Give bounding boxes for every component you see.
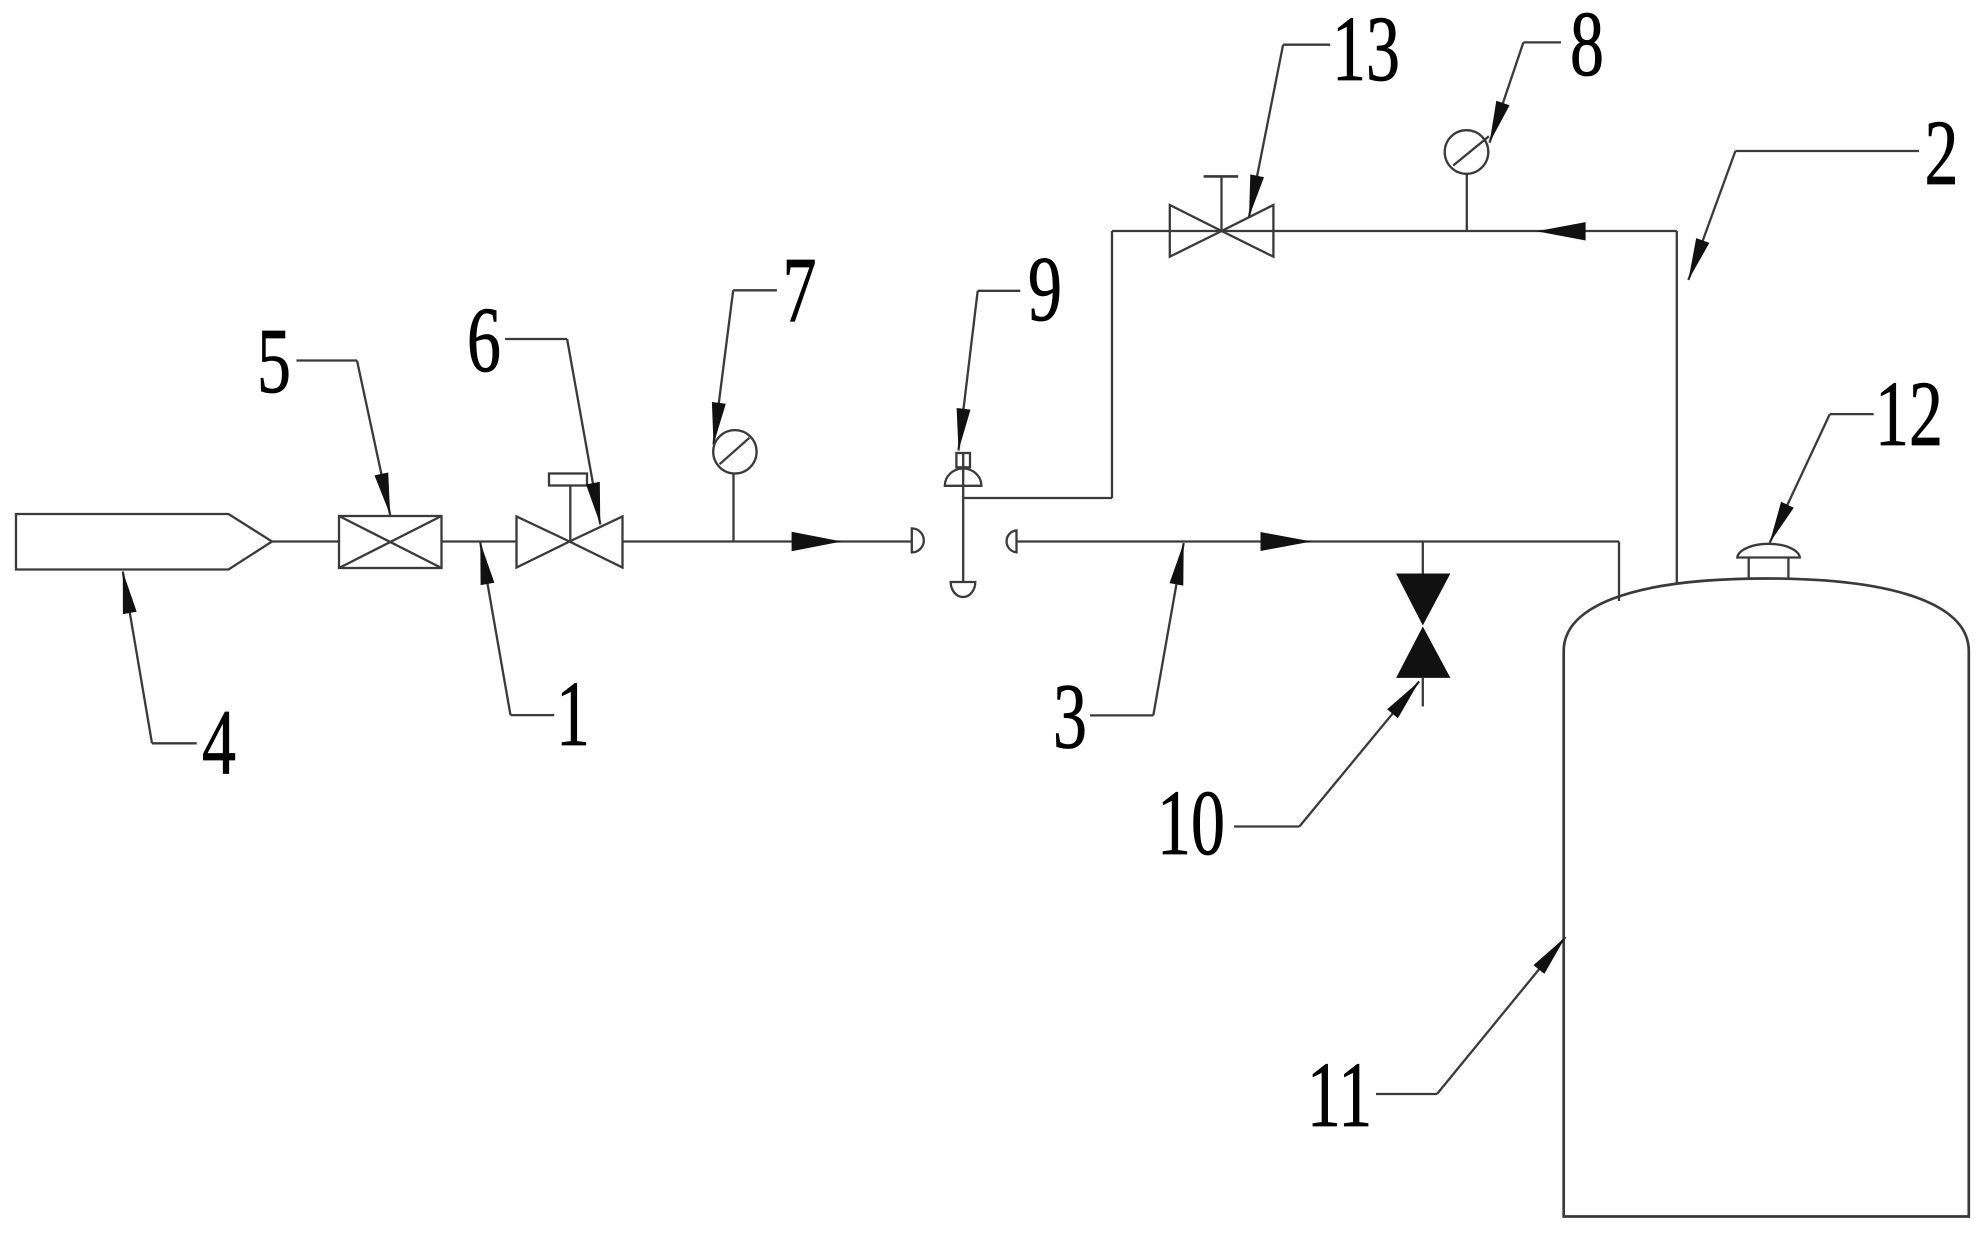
pressure gauge 7 xyxy=(713,430,756,541)
leader line for label 3 xyxy=(1153,543,1183,715)
svg-text:1: 1 xyxy=(556,662,590,766)
leader line for label 7 xyxy=(714,290,734,444)
leader arrowhead 13 xyxy=(1249,174,1264,217)
leader line for label 9 xyxy=(959,291,978,451)
pressure gauge 8 xyxy=(1445,130,1489,231)
wire: branch from igniter 9 to riser xyxy=(963,497,1112,499)
svg-text:3: 3 xyxy=(1053,664,1087,768)
filter element 5 (box with X) xyxy=(339,516,442,568)
svg-text:8: 8 xyxy=(1570,0,1604,96)
flow arrow on pipe 3 xyxy=(1261,532,1312,551)
valve 13 handle bar xyxy=(1204,175,1239,178)
flow arrow on top pipe (pointing left) xyxy=(1537,222,1586,240)
wire: pipe 3 from coupling to tank xyxy=(1017,540,1620,542)
leader arrowhead 9 xyxy=(957,408,971,451)
wire: riser to top line 2 xyxy=(1111,231,1113,498)
flow arrow on left pipe xyxy=(792,532,842,552)
coupling half (right C) of quick connector 9 xyxy=(1007,530,1017,552)
wire: tube 4 to filter 5 xyxy=(272,540,340,542)
leader arrowhead 7 xyxy=(712,402,726,445)
igniter 9: dome xyxy=(945,468,982,485)
leader line for label 5 xyxy=(357,361,390,516)
igniter 9: top square xyxy=(956,453,970,467)
coupling half (left D) of quick connector 9 xyxy=(912,528,924,552)
valve 13 (globe valve with T handle) xyxy=(1170,176,1274,256)
wire: right riser of loop 2 down to tank xyxy=(1676,231,1678,584)
tank 11 xyxy=(1564,579,1969,1217)
leader line for label 1 xyxy=(480,543,510,716)
valve 6 (globe valve with handle) xyxy=(517,474,623,568)
leader line for label 6 xyxy=(567,339,600,525)
leader arrowhead 4 xyxy=(123,572,137,615)
leader line for label 12 xyxy=(1770,414,1830,543)
filler cap 12 dome xyxy=(1737,544,1800,558)
leader arrowhead 11 xyxy=(1534,937,1566,974)
leader arrowhead 8 xyxy=(1490,101,1510,143)
igniter 9: bottom cup xyxy=(951,582,976,597)
svg-text:12: 12 xyxy=(1875,362,1943,466)
leader arrowhead 12 xyxy=(1770,502,1794,543)
leader arrowhead 3 xyxy=(1170,543,1184,586)
leader arrowhead 10 xyxy=(1387,681,1419,718)
svg-text:13: 13 xyxy=(1332,0,1400,101)
valve 10 stem bottom xyxy=(1422,678,1424,707)
wire: valve 6 past gauge 7 to coupling 9 xyxy=(623,540,912,542)
svg-text:6: 6 xyxy=(467,288,501,392)
leader line for label 13 xyxy=(1249,45,1283,217)
leader arrowhead 6 xyxy=(586,482,600,525)
leader arrowhead 2 xyxy=(1688,238,1709,280)
svg-text:4: 4 xyxy=(202,690,236,794)
svg-text:5: 5 xyxy=(257,309,291,413)
svg-text:11: 11 xyxy=(1307,1043,1372,1147)
leader arrowhead 1 xyxy=(480,543,494,586)
svg-text:10: 10 xyxy=(1157,771,1225,875)
leader line for label 10 xyxy=(1299,681,1419,826)
leader line for label 8 xyxy=(1490,42,1524,142)
leader line for label 4 xyxy=(123,572,152,744)
wire: drop into tank top xyxy=(1618,542,1620,602)
valve 10 solid bowtie xyxy=(1396,574,1450,626)
leader line for label 2 xyxy=(1688,151,1735,280)
valve 10 (solid needle valve) stem top xyxy=(1422,542,1424,575)
leader arrowhead 5 xyxy=(375,473,391,516)
svg-text:2: 2 xyxy=(1925,101,1959,205)
nozzle tube 4 xyxy=(16,514,272,570)
igniter 9: stem xyxy=(962,453,964,582)
top pipe 2 xyxy=(1112,230,1677,232)
wire: filter 5 to valve 6, node 1 xyxy=(442,540,517,542)
svg-text:9: 9 xyxy=(1028,237,1062,341)
filler cap 12 neck xyxy=(1748,558,1750,581)
leader line for label 11 xyxy=(1437,937,1566,1094)
svg-text:7: 7 xyxy=(783,238,817,342)
